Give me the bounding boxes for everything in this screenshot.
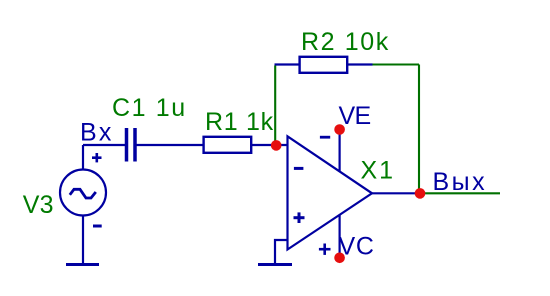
svg-text:X1: X1	[361, 157, 396, 185]
svg-text:R1 1k: R1 1k	[205, 108, 274, 136]
svg-text:V3: V3	[23, 191, 54, 219]
svg-text:VC: VC	[339, 232, 375, 260]
svg-text:R2 10k: R2 10k	[301, 28, 390, 56]
svg-text:C1 1u: C1 1u	[112, 94, 187, 122]
svg-text:Вх: Вх	[80, 119, 114, 147]
svg-text:VE: VE	[339, 102, 371, 130]
svg-text:Вых: Вых	[433, 168, 488, 196]
